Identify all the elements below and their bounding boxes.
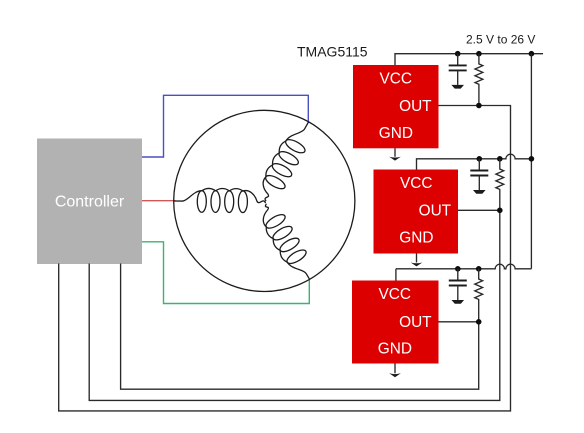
- node rail1-supply drop: [529, 51, 535, 57]
- svg-text:GND: GND: [379, 125, 413, 142]
- svg-text:OUT: OUT: [399, 314, 432, 331]
- U3 OUT wire: [121, 264, 479, 390]
- U1 GND arrow: [394, 148, 396, 156]
- svg-text:OUT: OUT: [399, 98, 432, 115]
- svg-text:GND: GND: [378, 341, 412, 358]
- node rail3-cap3: [455, 266, 461, 272]
- node rail2-res2: [497, 156, 503, 162]
- svg-text:OUT: OUT: [419, 203, 452, 220]
- svg-text:VCC: VCC: [400, 175, 433, 192]
- svg-text:GND: GND: [399, 230, 433, 247]
- svg-text:Controller: Controller: [55, 194, 125, 211]
- sensor U2 TMAG5115: [374, 170, 459, 254]
- resistor R1 pull-up: [475, 54, 483, 106]
- node rail1-cap1: [455, 51, 461, 57]
- U2 GND arrow: [416, 254, 418, 263]
- capacitor C2: [478, 159, 480, 170]
- motor winding top-right: [263, 122, 308, 201]
- controller box: [37, 139, 142, 265]
- green wire controller to motor phase C: [142, 242, 309, 304]
- U2 OUT wire: [89, 210, 500, 400]
- U3 VCC riser: [395, 269, 397, 281]
- supply drop to U2/U3: [530, 54, 532, 269]
- motor winding bottom-right: [263, 204, 309, 279]
- U1 VCC wire + top supply rail: [395, 54, 543, 65]
- node rail2-cap2: [477, 156, 483, 162]
- node rail3-res3: [476, 266, 482, 272]
- svg-text:VCC: VCC: [379, 286, 412, 303]
- svg-text:2.5 V to 26 V: 2.5 V to 26 V: [466, 32, 535, 46]
- node R1-OUT1: [476, 103, 482, 109]
- blue wire controller to motor phase A: [142, 95, 308, 157]
- capacitor C3: [457, 269, 459, 280]
- node rail2-supply: [529, 156, 535, 162]
- node rail1-res1: [476, 51, 482, 57]
- svg-text:VCC: VCC: [380, 70, 413, 87]
- node R3-OUT3: [476, 319, 482, 325]
- motor circle: [174, 110, 355, 291]
- U2 VCC rail with hop over OUT1: [417, 154, 532, 169]
- red wire controller to motor phase B: [142, 200, 176, 202]
- capacitor C1: [457, 54, 459, 65]
- resistor R2 pull-up: [496, 159, 504, 211]
- svg-text:TMAG5115: TMAG5115: [297, 44, 368, 60]
- motor winding left: [174, 188, 265, 203]
- U3 VCC rail with hops over OUT2 and OUT1: [396, 264, 532, 269]
- node R2-OUT2: [497, 208, 503, 214]
- U1 OUT wire: [59, 106, 511, 411]
- resistor R3 pull-up: [475, 269, 483, 322]
- sensor U1 TMAG5115: [353, 65, 439, 148]
- sensor U3 TMAG5115: [352, 281, 439, 364]
- U3 GND arrow: [394, 364, 396, 374]
